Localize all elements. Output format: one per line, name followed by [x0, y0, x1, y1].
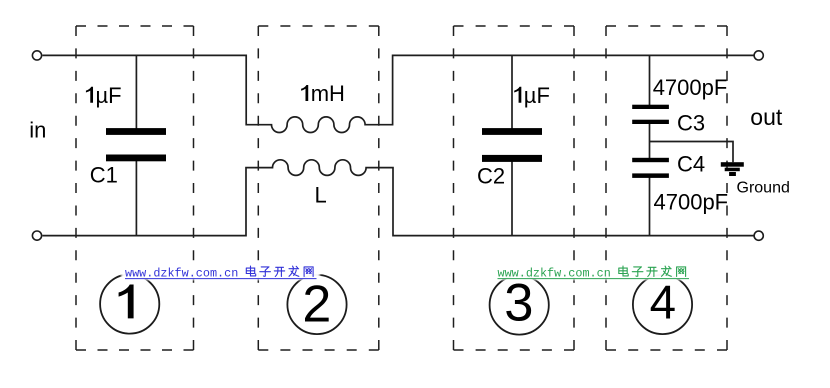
svg-text:µF: µF: [524, 83, 550, 108]
svg-text:C1: C1: [90, 163, 118, 188]
svg-text:4700pF: 4700pF: [654, 190, 729, 215]
svg-text:3: 3: [504, 273, 533, 332]
svg-text:in: in: [29, 117, 46, 142]
svg-text:L: L: [315, 182, 327, 207]
svg-text:C4: C4: [677, 152, 705, 177]
svg-text:4700pF: 4700pF: [653, 75, 728, 100]
svg-text:mH: mH: [311, 81, 345, 106]
svg-text:out: out: [750, 104, 783, 130]
svg-text:µF: µF: [96, 83, 122, 108]
svg-text:C3: C3: [677, 110, 705, 135]
svg-text:4: 4: [650, 277, 676, 330]
svg-text:C2: C2: [477, 164, 505, 189]
svg-text:2: 2: [302, 276, 331, 334]
svg-text:Ground: Ground: [737, 179, 790, 196]
